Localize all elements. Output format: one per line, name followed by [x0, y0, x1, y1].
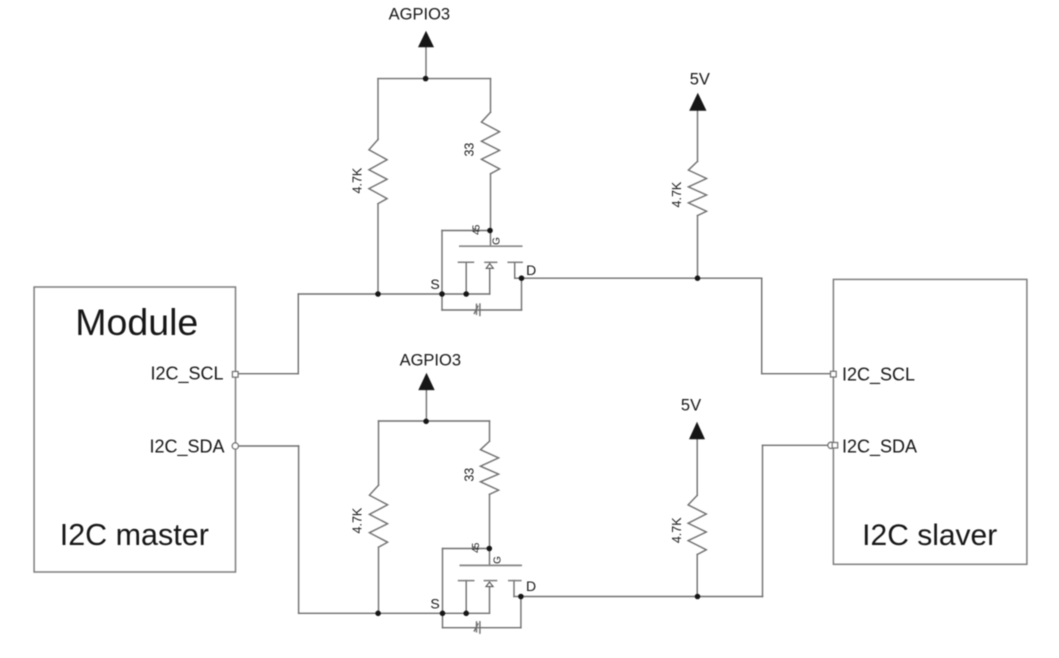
svg-text:4.7K: 4.7K: [350, 167, 364, 193]
svg-text:4.7K: 4.7K: [351, 507, 365, 533]
svg-text:I2C_SCL: I2C_SCL: [842, 364, 915, 385]
svg-text:D: D: [526, 578, 536, 594]
svg-text:45: 45: [472, 224, 483, 235]
svg-text:S: S: [430, 276, 439, 292]
svg-text:S: S: [430, 595, 439, 611]
svg-text:I2C master: I2C master: [60, 518, 209, 552]
svg-text:G: G: [492, 237, 503, 245]
svg-text:Module: Module: [75, 301, 198, 343]
svg-text:I2C_SCL: I2C_SCL: [150, 364, 223, 385]
svg-text:I2C_SDA: I2C_SDA: [149, 436, 224, 457]
svg-text:AGPIO3: AGPIO3: [389, 6, 450, 24]
svg-text:45: 45: [471, 542, 482, 553]
svg-text:33: 33: [462, 143, 476, 157]
svg-text:D: D: [526, 262, 536, 278]
svg-text:AGPIO3: AGPIO3: [400, 352, 461, 370]
svg-text:5V: 5V: [681, 396, 701, 414]
svg-text:4.7K: 4.7K: [670, 181, 684, 207]
svg-text:I2C_SDA: I2C_SDA: [842, 436, 917, 457]
svg-text:I2C slaver: I2C slaver: [862, 519, 997, 552]
svg-text:G: G: [493, 556, 504, 564]
svg-text:4.7K: 4.7K: [670, 517, 684, 543]
svg-text:5V: 5V: [690, 70, 710, 88]
svg-text:33: 33: [463, 468, 477, 482]
